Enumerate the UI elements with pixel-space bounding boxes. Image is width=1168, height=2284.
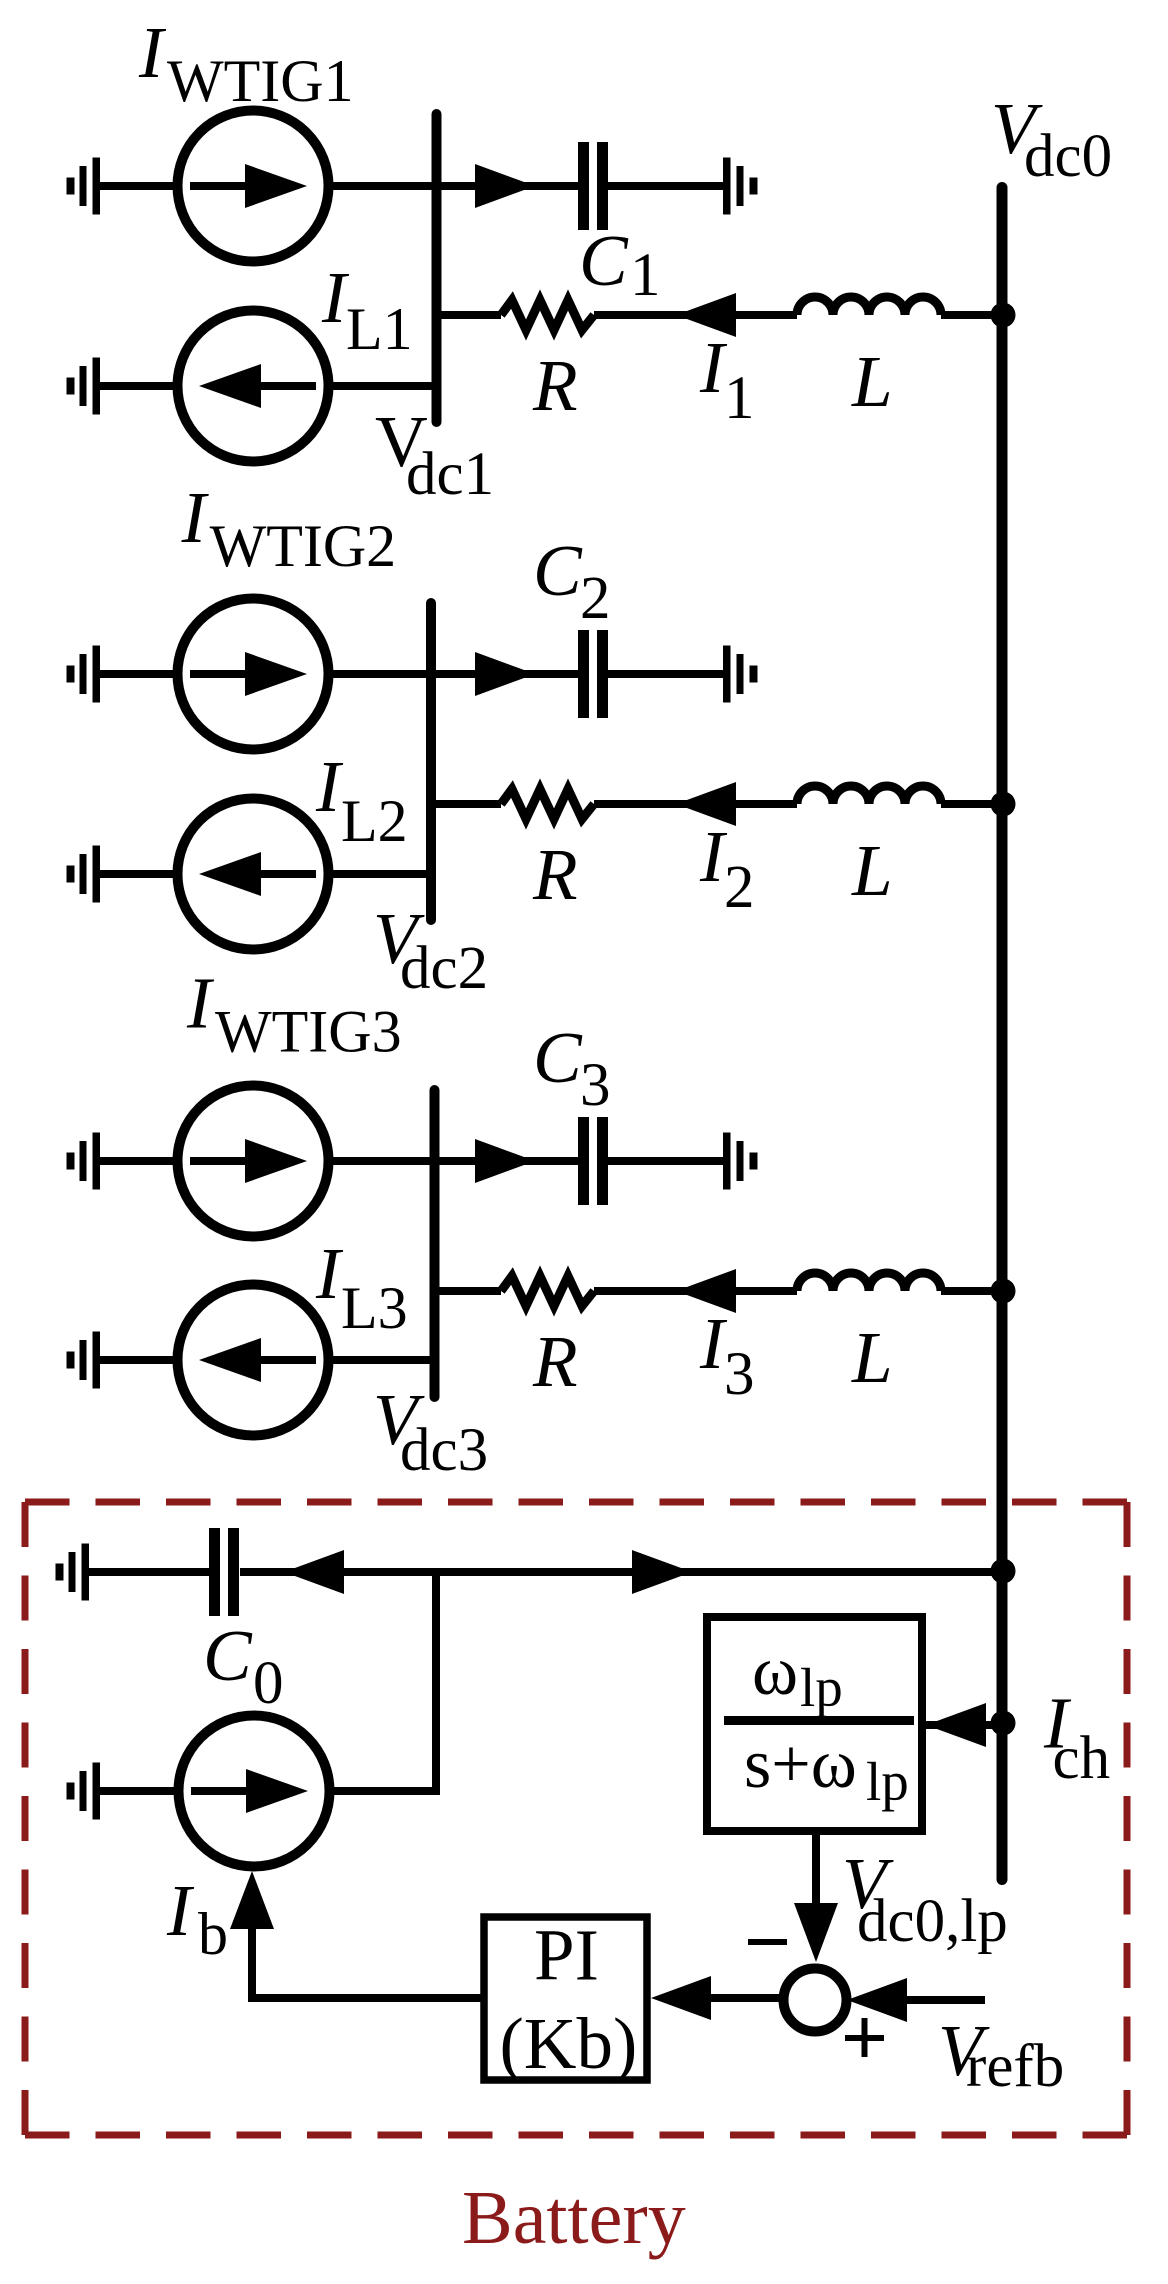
ground (67, 1332, 101, 1389)
svg-text:C: C (533, 1017, 583, 1098)
ground (723, 646, 758, 703)
current source I_b (179, 1716, 330, 1867)
wire bus to C2 (431, 670, 578, 678)
arrow I1 (676, 293, 736, 337)
inductor L (section 3) (797, 1273, 941, 1291)
low-pass filter block (707, 1617, 922, 1831)
svg-text:1: 1 (724, 365, 755, 432)
wire bus to R2 (431, 800, 501, 808)
wire gnd to C0 (89, 1568, 209, 1576)
svg-text:3: 3 (580, 1052, 611, 1119)
inductor L (section 1) (797, 297, 941, 315)
arrow toward bus (charge) (632, 1550, 692, 1594)
wire R to L (I1) (594, 311, 797, 319)
node Vdc0 main bus (997, 188, 1008, 1880)
ground (67, 1763, 101, 1820)
svg-text:s+ω: s+ω (744, 1726, 857, 1803)
wire Ib control stem (248, 1925, 256, 2002)
svg-text:lp: lp (800, 1657, 843, 1718)
capacitor C0 (209, 1528, 239, 1616)
wire C2 to gnd (608, 670, 723, 678)
svg-text:WTIG2: WTIG2 (210, 513, 397, 579)
wire IWTIG2 to bus (328, 670, 431, 678)
resistor R (section 2) (501, 789, 594, 819)
wire bus to R1 (437, 311, 502, 319)
inductor L (section 2) (797, 786, 941, 804)
svg-text:dc0: dc0 (1024, 123, 1112, 190)
arrow into C1 (475, 164, 535, 208)
capacitor C1 (578, 142, 608, 230)
ground (723, 1133, 758, 1190)
plus sign (845, 2018, 884, 2057)
svg-text:C: C (533, 530, 583, 611)
svg-text:L3: L3 (341, 1275, 408, 1341)
svg-text:ω: ω (752, 1633, 798, 1710)
arrow into lpf (926, 1703, 986, 1747)
resistor R (section 3) (501, 1276, 594, 1306)
svg-text:lp: lp (866, 1751, 909, 1812)
svg-text:L: L (851, 830, 893, 911)
svg-text:3: 3 (724, 1341, 755, 1408)
summing junction (784, 1969, 847, 2032)
minus sign (748, 1939, 787, 1945)
wire C0 node down (432, 1572, 440, 1791)
wire gnd to IWTIG1 (100, 182, 178, 190)
capacitor C3 (578, 1117, 608, 1205)
wire to PI block (252, 1994, 484, 2002)
svg-text:(Kb): (Kb) (500, 2003, 638, 2084)
svg-text:L: L (851, 341, 893, 422)
wire bus to C3 (435, 1157, 579, 1165)
wire gnd to Ib (100, 1787, 178, 1795)
ground (56, 1544, 90, 1601)
ground (67, 646, 101, 703)
wire gnd to IWTIG3 (100, 1157, 178, 1165)
svg-text:WTIG3: WTIG3 (215, 999, 402, 1065)
wire IL1 to bus (328, 382, 437, 390)
svg-text:dc3: dc3 (400, 1417, 488, 1484)
wire bus to lpf (926, 1721, 1003, 1729)
svg-text:L2: L2 (341, 788, 408, 854)
current source I_WTIG3 (178, 1086, 329, 1237)
svg-text:L1: L1 (346, 296, 413, 362)
svg-text:dc1: dc1 (406, 441, 494, 508)
arrow toward C0 (284, 1550, 344, 1594)
wire lpf to sum (812, 1835, 820, 1908)
svg-text:I: I (138, 12, 167, 93)
current source I_L2 (178, 799, 329, 950)
svg-text:dc0,lp: dc0,lp (857, 1888, 1008, 1955)
wire Vrefb input (907, 1996, 985, 2004)
wire IL2 to bus (328, 870, 431, 878)
wire sum to PI (711, 1994, 784, 2002)
node Vdc3 busbar (430, 1090, 440, 1397)
ground (67, 846, 101, 903)
node Vdc1 busbar (432, 114, 442, 422)
svg-text:I: I (181, 477, 210, 558)
svg-text:R: R (532, 834, 578, 915)
wire bus to C1 (437, 182, 579, 190)
junction I3 on Vdc0 (991, 1279, 1016, 1304)
current source I_WTIG2 (178, 599, 329, 750)
wire gnd to IL1 (100, 382, 178, 390)
ground (67, 158, 101, 215)
arrow I2 (676, 782, 736, 826)
resistor R (section 1) (501, 300, 594, 330)
svg-text:ch: ch (1053, 1725, 1111, 1792)
svg-text:1: 1 (630, 242, 661, 309)
svg-text:C: C (579, 220, 629, 301)
arrow into Ib (230, 1871, 274, 1929)
svg-text:WTIG1: WTIG1 (167, 48, 354, 114)
wire L to main bus (941, 311, 1003, 319)
junction battery wire on Vdc0 (991, 1559, 1016, 1584)
arrow into C2 (475, 652, 535, 696)
svg-text:I: I (186, 963, 215, 1044)
current source I_L1 (178, 311, 329, 462)
wire C1 to gnd (608, 182, 723, 190)
fraction bar (724, 1716, 914, 1725)
svg-text:PI: PI (534, 1915, 599, 1996)
svg-text:b: b (198, 1901, 228, 1967)
arrow into PI (651, 1976, 711, 2020)
wire C3 to gnd (608, 1157, 723, 1165)
wire L to main bus (941, 1287, 1003, 1295)
junction Ich on Vdc0 (991, 1711, 1016, 1736)
svg-text:Battery: Battery (462, 2176, 686, 2260)
svg-text:2: 2 (724, 854, 755, 921)
capacitor C2 (578, 630, 608, 718)
wire bus to R3 (435, 1287, 502, 1295)
svg-text:L: L (851, 1317, 893, 1398)
current source I_WTIG1 (178, 111, 329, 262)
wire L to main bus (941, 800, 1003, 808)
wire Ib to corner (330, 1787, 440, 1795)
wire R to L (I2) (594, 800, 797, 808)
wire R to L (I3) (594, 1287, 797, 1295)
ground (67, 358, 101, 415)
wire IWTIG3 to bus (328, 1157, 435, 1165)
arrow into C3 (475, 1139, 535, 1183)
svg-text:refb: refb (966, 2033, 1064, 2100)
wire gnd to IL2 (100, 870, 178, 878)
ground (723, 158, 758, 215)
battery dashed box (25, 1502, 1127, 2135)
svg-text:0: 0 (253, 1650, 284, 1717)
arrow into summing from Vrefb (847, 1978, 907, 2022)
junction I2 on Vdc0 (991, 792, 1016, 817)
wire IWTIG1 to bus (328, 182, 437, 190)
wire gnd to IL3 (100, 1356, 178, 1364)
svg-text:I: I (166, 1870, 195, 1951)
wire gnd to IWTIG2 (100, 670, 178, 678)
current source I_L3 (178, 1285, 329, 1436)
svg-text:2: 2 (580, 565, 611, 632)
svg-text:R: R (532, 1321, 578, 1402)
junction I1 on Vdc0 (991, 303, 1016, 328)
svg-text:C: C (203, 1615, 253, 1696)
PI controller block (Kb) (484, 1917, 647, 2080)
arrow into summing (794, 1903, 838, 1962)
svg-text:I: I (315, 1233, 344, 1314)
ground (67, 1133, 101, 1190)
svg-text:I: I (315, 746, 344, 827)
wire IL3 to bus (328, 1356, 435, 1364)
node Vdc2 busbar (426, 603, 436, 920)
arrow I3 (676, 1269, 736, 1313)
svg-text:R: R (532, 345, 578, 426)
wire C0 to main bus (240, 1568, 1003, 1576)
svg-text:dc2: dc2 (400, 935, 488, 1002)
